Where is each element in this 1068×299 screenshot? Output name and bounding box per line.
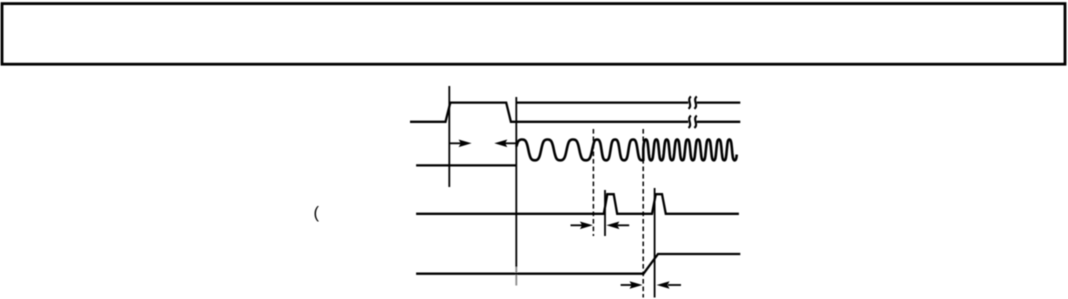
wire: waveform 1 high rail after falling edge with break gap [516,101,740,103]
vertical measurement line 1 at rising edge [448,86,450,187]
wire: waveform 4 low baseline, rising edge, high rail [416,254,740,274]
arrow right (pulse delay interval) [571,222,593,230]
vertical measurement line 2 at falling edge [515,97,517,267]
break mark on high rail [689,96,697,108]
header box [2,4,1065,65]
dashed line 2 [642,129,644,298]
measurement line at pulse 1 rising edge [604,190,606,236]
arrow right (oscillation start interval) [449,140,471,148]
measurement line at pulse 2 rising edge [654,188,656,298]
arrow left (pulse delay interval) [606,222,629,230]
oscillator sine waveform [516,140,736,161]
arrow left (oscillation start interval) [494,140,516,148]
wire: waveform 3 baseline with two pulses [416,194,739,214]
wire: oscillator low rail [416,164,517,166]
gray tail of vertical line 2 [515,267,517,286]
dashed line 1 [592,129,594,236]
arrow right (flag set interval) [621,281,643,289]
arrow left (flag set interval) [657,281,681,289]
svg-text:(: ( [314,204,320,222]
wire: waveform 1 low rail with pulse and break gap [410,103,740,122]
break mark on low rail [689,116,697,128]
